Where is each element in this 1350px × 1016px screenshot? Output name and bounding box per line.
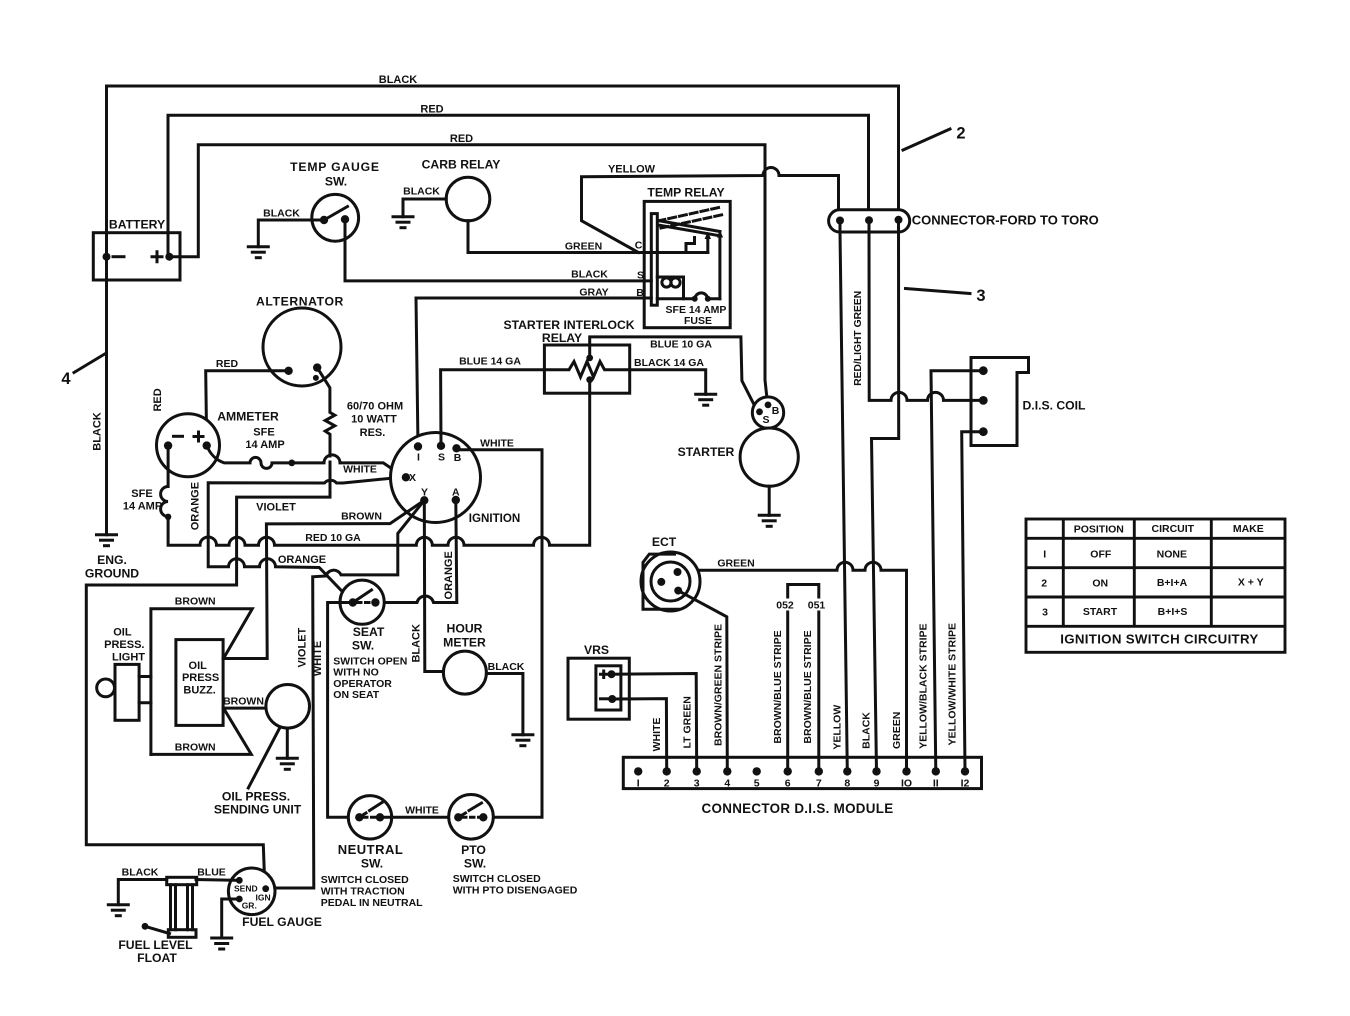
svg-text:A: A [452,487,460,499]
wire GRAY ignition I to temp relay B [416,298,651,447]
svg-text:SENDING UNIT: SENDING UNIT [214,803,302,817]
svg-text:14 AMP: 14 AMP [245,439,284,451]
svg-text:4: 4 [724,778,730,790]
svg-text:D.I.S. COIL: D.I.S. COIL [1023,399,1087,413]
svg-text:2: 2 [956,125,965,143]
svg-text:I: I [1043,549,1046,561]
wire DIS coil bottom to pin 12 [962,432,984,772]
seat switch [340,580,384,624]
svg-text:ENG.: ENG. [97,553,127,567]
wire starter to ground [768,486,771,515]
svg-text:YELLOW/BLACK STRIPE: YELLOW/BLACK STRIPE [917,623,929,748]
wire WHITE ignition B to PTO switch [457,448,543,817]
wire WHITE neutral sw to PTO sw [380,816,458,819]
temp relay contact bracket [686,238,695,253]
svg-text:NONE: NONE [1157,548,1187,560]
wire battery negative to engine ground [105,257,108,535]
wire GREEN carb relay to temp relay C [468,221,708,253]
svg-text:IO: IO [901,778,912,790]
svg-text:OIL: OIL [113,627,132,639]
oil press light stubs [139,677,151,703]
table ignition switch circuitry [1026,519,1285,652]
svg-text:14 AMP: 14 AMP [123,501,162,513]
svg-text:VRS: VRS [584,643,609,657]
svg-text:X: X [409,472,416,484]
D.I.S. coil connector [971,358,1029,446]
ground carb relay [392,217,415,228]
svg-text:CIRCUIT: CIRCUIT [1152,523,1195,535]
wire BLUE 14 GA ignition S to interlock relay [441,370,545,446]
svg-text:SW.: SW. [325,175,347,189]
svg-text:GR.: GR. [242,901,257,911]
svg-text:BLACK: BLACK [571,269,608,281]
temp relay bimetal bar [651,214,657,306]
leader oil press sending unit [248,729,279,788]
wire ignition Y to hour meter [424,500,443,671]
buzzer horn top (BROWN) [151,609,252,755]
svg-text:POSITION: POSITION [1074,524,1124,536]
svg-text:PEDAL IN NEUTRAL: PEDAL IN NEUTRAL [321,897,423,909]
svg-text:WITH TRACTION: WITH TRACTION [321,886,405,898]
svg-text:START: START [1083,606,1118,618]
svg-text:FUEL GAUGE: FUEL GAUGE [242,915,322,929]
svg-text:IGN: IGN [256,893,271,903]
ignition switch [391,433,481,523]
svg-text:X + Y: X + Y [1238,577,1264,589]
ignition terminals I S B X Y A [414,442,422,450]
svg-text:SWITCH CLOSED: SWITCH CLOSED [453,873,541,885]
callout 4 [74,354,106,373]
wire RED 10 GA (ammeter fuse to starter interlock relay) [168,380,590,546]
ground temp gauge sw [247,247,270,258]
svg-text:LT GREEN: LT GREEN [681,696,693,748]
VRS box [568,658,629,719]
svg-text:BATTERY: BATTERY [109,218,165,232]
svg-text:2: 2 [1041,578,1047,590]
svg-text:OIL: OIL [189,660,208,672]
svg-text:SW.: SW. [464,857,486,871]
svg-text:BROWN: BROWN [223,696,264,708]
starter interlock relay box [544,345,629,393]
svg-text:CONNECTOR D.I.S. MODULE: CONNECTOR D.I.S. MODULE [702,801,894,816]
svg-text:ON SEAT: ON SEAT [333,689,379,701]
fuel level float [145,926,170,933]
svg-text:WHITE: WHITE [651,718,663,752]
wire ORANGE ignition X to seat sw [208,477,404,603]
svg-text:METER: METER [443,636,486,650]
svg-text:GREEN: GREEN [891,712,903,749]
temp relay contact arm [658,221,720,236]
svg-text:PRESS: PRESS [182,672,219,684]
interlock resistor [544,362,629,378]
svg-text:STARTER INTERLOCK: STARTER INTERLOCK [503,318,634,332]
svg-text:OIL PRESS.: OIL PRESS. [222,790,290,804]
wire YELLOW connector to DIS module pin 8 [840,221,847,772]
connector ford to toro [829,210,910,232]
svg-text:RED 10 GA: RED 10 GA [305,532,361,544]
ammeter [157,414,220,477]
svg-text:AMMETER: AMMETER [217,410,279,424]
temp relay heater coil [657,277,683,299]
wire VIOLET ignition Y branch to fuel gauge [268,500,424,888]
svg-text:B: B [454,452,462,464]
svg-text:VIOLET: VIOLET [297,627,309,667]
wires 052 051 to pins 6 7 [788,612,819,771]
svg-text:B+I+A: B+I+A [1157,577,1188,589]
svg-text:WITH NO: WITH NO [333,667,379,679]
svg-text:FLOAT: FLOAT [137,951,177,965]
temp relay box [644,201,730,327]
neutral switch [348,796,391,839]
ground black 14 ga [694,394,717,405]
wire RED alternator to ammeter + [206,371,289,446]
svg-text:S: S [438,452,445,464]
wire GR. fuel gauge to ground [222,899,240,938]
ECT sensor [643,554,680,609]
wire GREEN ECT to DIS module pin 10 [700,562,907,771]
svg-text:BLACK 14 GA: BLACK 14 GA [634,357,704,369]
svg-text:BUZZ.: BUZZ. [183,685,215,697]
oil press sending unit [266,685,310,729]
svg-text:I: I [417,452,420,464]
ground hour meter [511,735,534,746]
svg-text:3: 3 [1042,607,1048,619]
wire BLACK tank to ground [118,880,166,905]
wire RED bus 2 (battery + to starter B) [169,145,766,394]
wire BLACK 14 GA relay to ground [630,370,706,395]
ground oil press sending unit [276,758,299,769]
svg-text:STARTER: STARTER [678,445,735,459]
svg-text:WHITE: WHITE [480,437,514,449]
svg-text:3: 3 [976,287,985,305]
svg-text:SWITCH CLOSED: SWITCH CLOSED [321,874,409,886]
callout 3 [906,289,971,294]
svg-text:OPERATOR: OPERATOR [333,678,392,690]
svg-text:B+I+S: B+I+S [1158,606,1188,618]
svg-text:4: 4 [61,370,71,388]
svg-text:5: 5 [754,778,760,790]
temp relay fuse SFE 14 AMP [657,293,720,299]
wire BLUE 10 GA relay to starter S [590,337,756,409]
ground starter [758,515,781,526]
svg-text:S: S [762,414,769,426]
battery terminals [103,253,111,261]
hour meter [443,651,486,694]
callout 2 [903,129,950,150]
svg-text:YELLOW/WHITE STRIPE: YELLOW/WHITE STRIPE [947,623,959,746]
wire RED/LIGHT GREEN connector to DIS coil [869,220,983,400]
svg-text:ECT: ECT [652,535,677,549]
svg-text:GROUND: GROUND [85,567,139,581]
svg-text:BLUE 10 GA: BLUE 10 GA [650,339,712,351]
buzzer horn bottom (BROWN) [151,708,251,754]
svg-text:BROWN/GREEN STRIPE: BROWN/GREEN STRIPE [713,624,725,746]
svg-text:SW.: SW. [352,639,374,653]
resistor 60/70 OHM 10 WATT [317,368,335,456]
svg-text:RED/LIGHT GREEN: RED/LIGHT GREEN [853,291,864,386]
svg-text:052: 052 [776,600,794,612]
wire black to carb relay ground [403,199,446,217]
svg-text:OFF: OFF [1090,549,1112,561]
PTO switch [449,795,494,840]
wire resistor tail (to fuel gauge IGN) [86,462,330,886]
svg-text:BROWN/BLUE STRIPE: BROWN/BLUE STRIPE [772,630,784,743]
svg-text:60/70 OHM: 60/70 OHM [347,401,403,413]
svg-text:WHITE: WHITE [405,805,439,817]
temp relay arrows [708,238,720,299]
module pins [634,767,642,775]
wire BLACK connector to DIS module pin 9 [872,220,899,772]
svg-text:ALTERNATOR: ALTERNATOR [256,295,344,309]
carb relay [446,177,490,221]
svg-text:051: 051 [808,600,826,612]
wire fuse ammeter + (WHITE to ignition X) [207,446,404,477]
svg-text:BLACK: BLACK [861,712,873,749]
svg-text:ORANGE: ORANGE [189,482,201,530]
svg-text:3: 3 [694,778,700,790]
svg-text:BLUE 14 GA: BLUE 14 GA [459,356,521,368]
svg-text:2: 2 [664,778,670,790]
svg-text:BLACK: BLACK [122,867,159,879]
starter motor [740,428,798,486]
svg-text:GRAY: GRAY [579,287,608,299]
oil press light [97,679,115,697]
wire ECT bottom to DIS module pin 4 [678,591,727,772]
svg-text:BROWN: BROWN [175,596,216,608]
svg-text:ORANGE: ORANGE [278,554,326,566]
svg-text:6: 6 [785,778,791,790]
svg-text:SEND: SEND [234,884,258,894]
ground ENG. GROUND [95,535,118,546]
svg-text:BLACK: BLACK [379,74,418,86]
wire BLACK top bus (battery negative to connector) [107,86,899,257]
svg-text:BLACK: BLACK [403,186,440,198]
wire hour meter to ground (BLACK) [486,674,523,735]
svg-text:LIGHT: LIGHT [112,652,145,664]
svg-text:IGNITION SWITCH CIRCUITRY: IGNITION SWITCH CIRCUITRY [1060,632,1258,647]
svg-text:GREEN: GREEN [717,558,754,570]
wire VRS + to DIS module pin 3 (LT GREEN) [612,674,697,772]
svg-text:VIOLET: VIOLET [256,502,296,514]
wire ORANGE ignition A to seat sw [375,500,456,603]
svg-text:RED: RED [152,388,164,411]
svg-text:BLACK: BLACK [263,208,300,220]
wire black to temp gauge sw ground [258,220,324,247]
svg-text:BLACK: BLACK [488,661,525,673]
svg-text:WHITE: WHITE [312,641,324,676]
svg-text:BLUE: BLUE [197,867,226,879]
fuel gauge [228,868,275,915]
svg-text:IGNITION: IGNITION [469,512,521,525]
fuel tank [167,877,197,884]
svg-text:HOUR: HOUR [447,622,483,636]
battery box [93,233,180,280]
svg-text:ON: ON [1092,577,1108,589]
svg-text:B: B [772,405,780,417]
svg-text:SFE: SFE [253,427,274,439]
svg-text:CARB RELAY: CARB RELAY [422,158,501,172]
svg-text:PTO: PTO [461,843,486,857]
svg-text:RED: RED [450,133,473,145]
connector DIS module box [623,757,981,788]
svg-text:MAKE: MAKE [1233,523,1264,535]
svg-text:NEUTRAL: NEUTRAL [338,842,404,857]
svg-text:RED: RED [216,358,239,370]
svg-text:BLACK: BLACK [410,624,422,663]
svg-text:BLACK: BLACK [92,412,104,451]
wire BLUE tank to fuel gauge SEND [196,878,239,882]
wire WHITE seat sw to neutral sw [328,603,360,818]
wire temp sw to temp relay S (BLACK) [345,219,651,281]
svg-text:FUEL LEVEL: FUEL LEVEL [118,938,193,952]
svg-text:RELAY: RELAY [542,331,582,345]
svg-text:TEMP RELAY: TEMP RELAY [647,186,724,200]
svg-text:TEMP GAUGE: TEMP GAUGE [290,160,380,174]
wire VRS - to DIS module pin 2 (WHITE) [612,699,667,772]
svg-text:BROWN: BROWN [175,742,216,754]
oil press buzzer box [176,640,223,726]
starter solenoid [752,397,783,428]
svg-text:8: 8 [844,778,850,790]
svg-text:ORANGE: ORANGE [443,551,455,599]
svg-text:II: II [933,778,939,790]
svg-text:GREEN: GREEN [565,241,602,253]
wire RED bus 1 (battery + to connector middle) [168,115,869,256]
svg-text:CONNECTOR-FORD TO TORO: CONNECTOR-FORD TO TORO [912,213,1099,228]
svg-text:SFE: SFE [131,488,152,500]
svg-text:RED: RED [420,104,443,116]
svg-text:7: 7 [816,778,822,790]
svg-text:FUSE: FUSE [684,315,712,327]
temp gauge switch [312,194,359,241]
svg-text:SEAT: SEAT [353,625,385,639]
svg-text:BROWN: BROWN [341,511,382,523]
svg-text:PRESS.: PRESS. [104,639,144,651]
svg-text:WITH PTO DISENGAGED: WITH PTO DISENGAGED [453,885,578,897]
svg-text:YELLOW: YELLOW [608,164,656,176]
alternator [263,308,341,386]
wire YELLOW from connector to temp relay C [582,168,839,253]
svg-text:BROWN/BLUE STRIPE: BROWN/BLUE STRIPE [802,630,814,743]
wire BROWN buzzer to oil press sending unit [223,707,266,710]
svg-text:9: 9 [874,778,880,790]
svg-text:SW.: SW. [361,857,383,871]
wire BROWN ignition Y to oil press buzzer [223,500,424,658]
svg-text:YELLOW: YELLOW [831,705,843,750]
wire DIS coil top to pin 11 [931,371,983,772]
fuse SFE 14 AMP below ammeter (RED 10 GA feed) [161,446,168,517]
svg-text:10 WATT: 10 WATT [351,414,397,426]
svg-text:RES.: RES. [360,427,386,439]
svg-text:Y: Y [421,487,428,499]
temp relay dashed arm [658,207,724,228]
svg-text:WHITE: WHITE [343,464,377,476]
svg-text:I: I [637,778,640,790]
svg-text:I2: I2 [961,778,970,790]
